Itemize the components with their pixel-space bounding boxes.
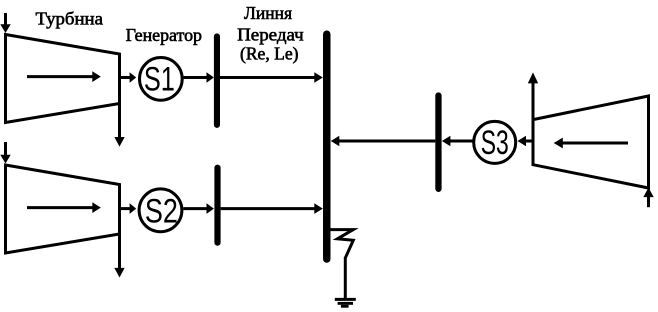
label "Генератор": [126, 25, 203, 45]
label "Турбнна": [36, 9, 104, 29]
svg-text:Генератор: Генератор: [126, 25, 203, 45]
svg-text:Турбнна: Турбнна: [36, 9, 104, 29]
shaft T2 to S2: [120, 203, 137, 214]
generator S2: [139, 189, 182, 232]
ground symbol: [335, 299, 356, 307]
wire B1 to main bus (line Re,Le): [220, 72, 323, 83]
wire S1 to busbar B1: [184, 72, 214, 83]
turbine T2 flow arrow: [27, 202, 101, 213]
wire B2 to main bus: [221, 203, 323, 214]
svg-text:Передач: Передач: [237, 25, 304, 45]
turbine T1 flow arrow: [27, 71, 101, 82]
shaft T3 to S3: [518, 136, 532, 147]
wire B3 to S3: [442, 136, 473, 147]
turbine T3 flow arrow (leftward): [554, 138, 628, 149]
turbine T2 steam inlet arrow: [0, 142, 10, 164]
turbine T1 exhaust arrow: [114, 104, 124, 147]
turbine T1 steam inlet arrow: [0, 13, 10, 33]
turbine T3 exhaust arrow (up): [528, 72, 538, 119]
svg-text:S3: S3: [481, 124, 509, 162]
turbine T2 body: [6, 165, 120, 253]
wire S2 to busbar B2: [183, 203, 214, 214]
generator S3: [474, 121, 516, 163]
svg-text:(Re, Le): (Re, Le): [240, 43, 299, 63]
svg-text:Линня: Линня: [244, 3, 292, 23]
label "Линня Передач (Re, Le)": [237, 3, 304, 64]
svg-text:S2: S2: [145, 192, 178, 230]
busbar B2: [214, 168, 220, 243]
wire main bus to busbar B3: [331, 136, 436, 147]
turbine T3 body: [533, 96, 649, 188]
main bus (Линня Передач): [323, 34, 331, 259]
svg-text:S1: S1: [144, 61, 175, 99]
turbine T3 inlet arrow (up, bottom right): [643, 188, 653, 208]
turbine T2 exhaust arrow: [114, 234, 124, 278]
ground wire: [344, 257, 347, 299]
generator S1: [140, 58, 183, 101]
ground tap zigzag from main bus: [331, 230, 354, 258]
turbine T1 body: [6, 35, 120, 123]
busbar B1: [214, 36, 220, 125]
shaft T1 to S1: [120, 72, 137, 83]
busbar B3: [435, 96, 441, 189]
